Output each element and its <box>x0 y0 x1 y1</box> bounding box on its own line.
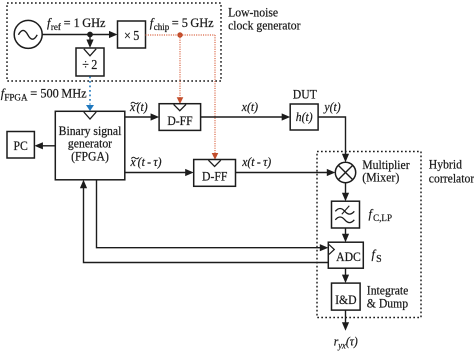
oscillator (1 GHz reference source) <box>14 20 42 48</box>
junction node on f_ref wire <box>87 32 93 38</box>
svg-text:÷ 2: ÷ 2 <box>82 57 97 72</box>
svg-text:(Mixer): (Mixer) <box>362 170 399 185</box>
wire I&D to correlator output <box>345 310 347 324</box>
wire junction down to divide-by-2 <box>89 35 91 42</box>
svg-text:PC: PC <box>14 138 28 153</box>
svg-text:ADC: ADC <box>336 249 361 264</box>
svg-text:D-FF: D-FF <box>167 113 192 128</box>
wire f_chip to D-FF2 clock (dotted orange) <box>214 35 216 153</box>
wire FPGA to PC <box>43 145 56 147</box>
svg-text:fFPGA= 500 MHz: fFPGA= 500 MHz <box>1 86 87 103</box>
svg-text:y(t): y(t) <box>323 99 341 114</box>
integrate-and-dump I&D box <box>332 283 361 310</box>
svg-text:x(t): x(t) <box>129 99 148 114</box>
wire FPGA to D-FF2 <box>125 172 187 174</box>
svg-text:ryx(τ): ryx(τ) <box>334 334 358 351</box>
svg-text:D-FF: D-FF <box>202 169 227 184</box>
svg-text:clock generator: clock generator <box>228 18 300 33</box>
wire f_chip to D-FF1 clock (dotted orange) <box>179 35 181 98</box>
svg-text:fS: fS <box>372 247 382 265</box>
wire D-FF1 to DUT <box>201 116 283 118</box>
svg-text:x(t - τ): x(t - τ) <box>130 154 162 169</box>
wire D-FF2 to multiplier <box>236 172 329 174</box>
low-noise clock generator enclosure (dashed box) <box>7 3 221 81</box>
wire oscillator to x5 multiplier <box>42 34 110 36</box>
svg-text:x(t): x(t) <box>241 99 258 114</box>
svg-text:I&D: I&D <box>335 292 357 307</box>
D-FF1 box <box>159 104 201 131</box>
wire f_chip horizontal (dotted orange) <box>146 34 216 36</box>
wire filter to ADC <box>345 228 347 236</box>
svg-text:DUT: DUT <box>293 87 317 102</box>
D-FF2 box <box>194 160 236 187</box>
frequency multiplier x5 box <box>118 21 146 48</box>
DUT h(t) box <box>290 104 318 130</box>
svg-text:(FPGA): (FPGA) <box>71 149 109 164</box>
svg-text:Hybrid: Hybrid <box>429 157 463 172</box>
svg-text:correlator: correlator <box>429 171 474 186</box>
PC box <box>7 132 34 159</box>
junction node on f_chip wire (orange) <box>177 32 182 37</box>
low-pass filter box <box>332 201 360 228</box>
wire ADC back to FPGA <box>84 188 329 263</box>
wire multiplier to low-pass filter <box>345 183 347 195</box>
svg-text:& Dump: & Dump <box>367 296 408 311</box>
svg-text:fchip= 5 GHz: fchip= 5 GHz <box>150 16 214 33</box>
svg-text:fC,LP: fC,LP <box>369 207 392 224</box>
ADC box <box>328 242 363 268</box>
frequency divider /2 box <box>76 48 104 76</box>
hybrid correlator enclosure (dashed box) <box>317 152 421 318</box>
svg-text:h(t): h(t) <box>296 109 313 124</box>
wire DUT to multiplier <box>318 117 345 156</box>
svg-text:fref= 1 GHz: fref= 1 GHz <box>47 16 106 33</box>
binary signal generator FPGA box <box>55 111 125 180</box>
wire ADC to I&D <box>345 268 347 276</box>
svg-text:x(t - τ): x(t - τ) <box>241 154 271 169</box>
svg-text:× 5: × 5 <box>124 28 139 43</box>
wire /2 output to FPGA clock (dotted blue) <box>89 77 91 105</box>
wire FPGA sampling clock to ADC <box>97 180 322 248</box>
multiplier (mixer) symbol <box>335 162 355 182</box>
wire FPGA to D-FF1 <box>125 116 152 118</box>
